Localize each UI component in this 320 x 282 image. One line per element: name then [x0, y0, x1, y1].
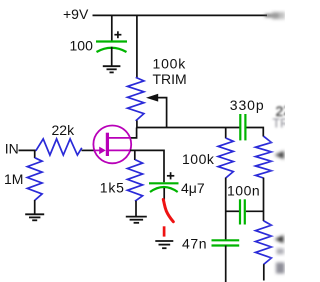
transistor Q1 gate lead and arrow: [94, 149, 101, 151]
svg-text:47n: 47n: [182, 236, 207, 252]
svg-text:100k: 100k: [153, 55, 187, 71]
faded label remnant bottom right: [276, 263, 285, 274]
svg-text:IN: IN: [5, 140, 19, 156]
red annotation curved stroke: [163, 200, 173, 222]
svg-text:1M: 1M: [4, 171, 23, 187]
capacitor C3 330p right plate: [244, 114, 246, 140]
faded wiper arrow right middle: [275, 151, 285, 159]
resistor 100k body: [218, 138, 233, 178]
transistor Q1 source lead: [109, 149, 131, 151]
transistor Q1 JFET body circle: [93, 125, 131, 163]
fade overlay right edge: [267, 0, 285, 282]
wire right chain middle lead: [263, 178, 265, 221]
wire C2 bottom lead: [163, 188, 165, 200]
wire top +9V rail: [93, 14, 268, 16]
svg-text:TRIM: TRIM: [153, 71, 187, 87]
red annotation straight segment: [163, 226, 166, 236]
capacitor C5 47n top plate: [212, 239, 240, 241]
svg-text:330p: 330p: [230, 97, 265, 113]
resistor 1M body: [27, 158, 42, 201]
wire IN lead: [19, 149, 37, 151]
capacitor C5 47n bottom plate: [212, 244, 240, 246]
capacitor C1 100uF curved plate: [97, 48, 127, 52]
capacitor C3 330p left plate: [239, 114, 241, 140]
wire trimpot bottom lead: [136, 121, 138, 129]
faded wiper arrow right bottom: [275, 235, 284, 243]
wire junction down to 1M: [34, 150, 36, 158]
svg-text:4μ7: 4μ7: [181, 180, 205, 196]
potentiometer 100k TRIM resistor body: [128, 77, 144, 121]
potentiometer wiper arrow: [146, 94, 158, 102]
faded label 2xx top right: [276, 102, 292, 119]
capacitor C4 100n left plate: [239, 199, 241, 224]
wire wiper to bottom rail: [157, 98, 167, 128]
resistor right top body: [256, 136, 272, 178]
resistor 1k5 body: [127, 160, 142, 202]
svg-text:100k: 100k: [182, 151, 215, 167]
wire right chain bottom lead: [263, 264, 265, 280]
wire source to C2: [130, 150, 164, 182]
wire C5 bottom lead to edge: [225, 246, 227, 282]
wire C1 bottom lead: [111, 47, 113, 66]
resistor right bottom body: [256, 221, 272, 265]
wire C3 to right chain corner: [247, 128, 264, 137]
wire left 100k top lead: [225, 128, 227, 139]
wire 22k to gate: [82, 149, 95, 151]
capacitor C1 100uF top plate: [96, 40, 127, 42]
faded small label remnant: [277, 248, 285, 254]
transistor Q1 gate bar: [106, 133, 109, 156]
capacitor C2 4u7 top plate: [149, 182, 179, 184]
svg-text:TRI: TRI: [273, 117, 286, 131]
ground below C1: [103, 66, 121, 72]
svg-text:100: 100: [70, 38, 94, 54]
ground below 1M: [25, 214, 44, 220]
wire 1M bottom lead: [34, 200, 36, 214]
resistor 22k body: [36, 139, 82, 155]
wire 1k5 bottom lead: [135, 201, 137, 217]
transistor Q1 drain lead: [109, 137, 131, 139]
wire 100n branch right segment: [246, 210, 264, 212]
capacitor C4 100n right plate: [244, 199, 246, 224]
wire mid horizontal rail: [137, 127, 240, 129]
svg-text:1k5: 1k5: [100, 180, 125, 196]
capacitor C1 100uF electrolytic plus sign: [114, 31, 121, 38]
svg-text:+9V: +9V: [63, 6, 89, 22]
wire faded continuation of top rail: [265, 12, 285, 19]
svg-text:100n: 100n: [227, 182, 260, 198]
ground below red annotation: [155, 241, 173, 248]
wire 100n branch left segment: [226, 210, 239, 212]
capacitor C2 4u7 curved plate: [150, 187, 178, 192]
wire trimpot top lead: [136, 15, 138, 77]
wire left 100k bottom lead down through junction to C5: [225, 178, 227, 241]
faded TRIM label right: [273, 117, 293, 131]
wire source down to 1k5: [134, 150, 136, 160]
ground below 1k5: [126, 217, 147, 223]
svg-text:22k: 22k: [52, 122, 76, 138]
capacitor C2 4u7 plus sign: [167, 172, 174, 179]
wire C1 top lead: [111, 15, 113, 40]
wire drain connection up to mid rail: [130, 128, 137, 138]
